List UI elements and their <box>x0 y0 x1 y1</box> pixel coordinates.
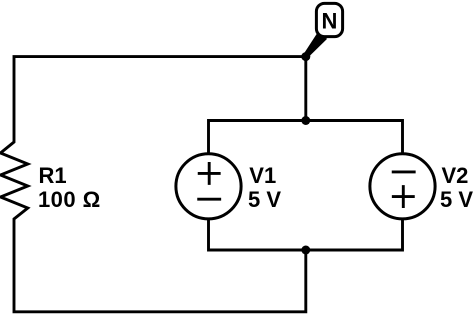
svg-text:V2: V2 <box>442 163 469 188</box>
svg-text:R1: R1 <box>39 163 67 188</box>
svg-text:5 V: 5 V <box>248 187 281 212</box>
svg-text:5 V: 5 V <box>440 187 473 212</box>
svg-text:100 Ω: 100 Ω <box>38 187 101 212</box>
svg-text:N: N <box>322 9 338 34</box>
svg-text:V1: V1 <box>249 163 276 188</box>
